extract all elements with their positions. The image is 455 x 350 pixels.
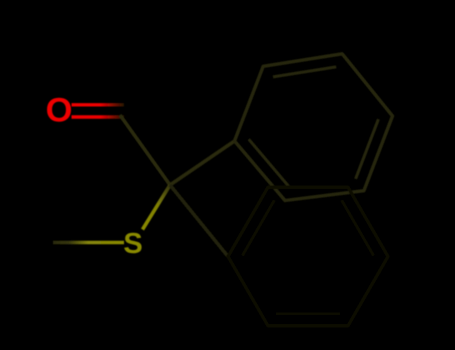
svg-text:O: O (46, 91, 73, 129)
bond S-CH3 (methyl) (53, 241, 124, 245)
ring1 inner double bond right edge (356, 119, 379, 179)
bond C1=O double bond lower line (72, 115, 125, 118)
phenyl ring 1 outline (235, 54, 393, 201)
svg-text:S: S (123, 228, 142, 260)
ring1 inner double bond left edge (249, 139, 289, 187)
bond C1-C2 (carbonyl to central carbon) (120, 115, 170, 185)
phenyl ring 2 outline (228, 187, 388, 326)
bond C1=O double bond upper line (72, 103, 125, 106)
ring2 inner double bond upper-left edge (242, 200, 274, 256)
ring2 inner double bond bottom edge (276, 312, 340, 315)
bond C2-S (143, 185, 171, 230)
ring2 inner double bond upper-right edge (342, 200, 374, 256)
ring1 inner double bond top edge (273, 67, 336, 77)
bond C2-ring2 attachment (170, 185, 228, 257)
bond C2-ring1 attachment (170, 141, 235, 185)
